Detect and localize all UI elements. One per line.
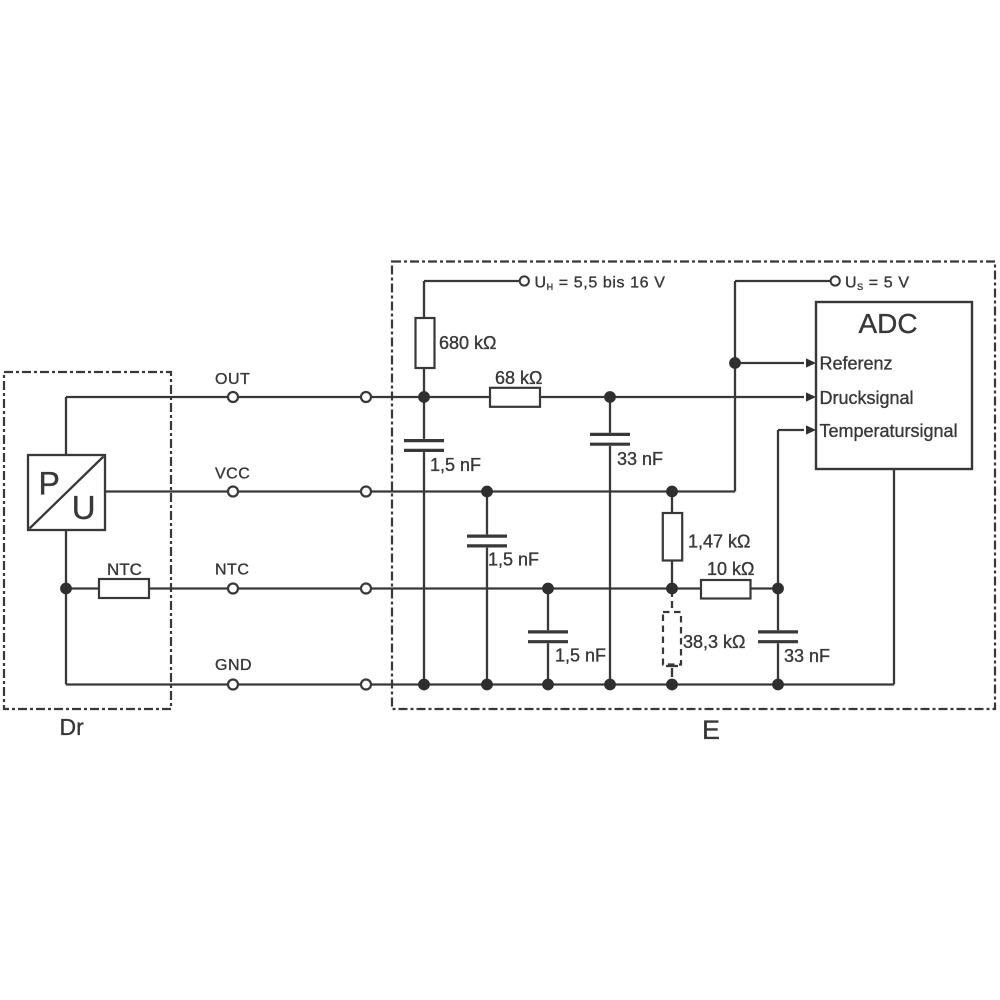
svg-text:P: P [39, 466, 60, 502]
svg-text:Temperatursignal: Temperatursignal [820, 421, 958, 441]
svg-text:1,47 kΩ: 1,47 kΩ [688, 532, 751, 552]
svg-text:U: U [72, 489, 96, 526]
svg-text:Referenz: Referenz [820, 354, 893, 374]
svg-text:OUT: OUT [215, 371, 250, 388]
svg-text:1,5 nF: 1,5 nF [555, 646, 606, 666]
svg-text:Drucksignal: Drucksignal [820, 388, 914, 408]
svg-text:NTC: NTC [215, 562, 249, 579]
svg-text:ADC: ADC [858, 308, 917, 339]
svg-text:E: E [702, 715, 720, 745]
svg-text:Dr: Dr [60, 714, 85, 740]
svg-text:VCC: VCC [215, 466, 250, 483]
svg-text:GND: GND [215, 657, 252, 674]
svg-text:68 kΩ: 68 kΩ [495, 368, 542, 388]
svg-text:33 nF: 33 nF [784, 646, 830, 666]
svg-text:10 kΩ: 10 kΩ [707, 559, 754, 579]
svg-text:33 nF: 33 nF [617, 449, 663, 469]
svg-text:680 kΩ: 680 kΩ [439, 333, 497, 353]
svg-text:US = 5 V: US = 5 V [845, 275, 910, 293]
svg-text:UH = 5,5 bis 16 V: UH = 5,5 bis 16 V [535, 275, 666, 293]
svg-text:38,3 kΩ: 38,3 kΩ [683, 632, 746, 652]
svg-text:1,5 nF: 1,5 nF [430, 455, 481, 475]
svg-text:1,5 nF: 1,5 nF [488, 550, 539, 570]
svg-text:NTC: NTC [107, 560, 142, 579]
